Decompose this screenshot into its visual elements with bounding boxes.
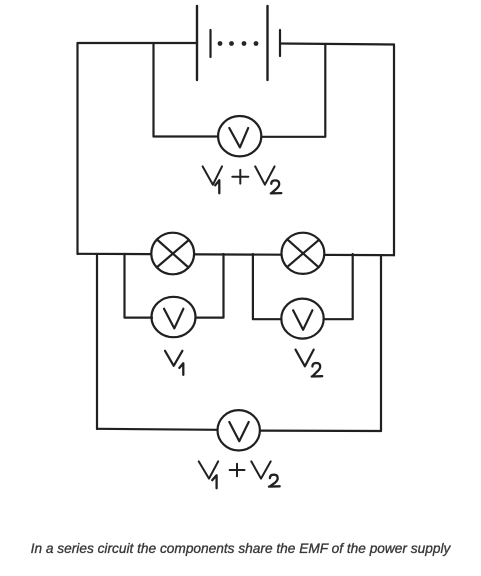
wire voltmeter U3 branch right — [324, 254, 353, 319]
voltmeter U1 V symbol — [229, 128, 248, 147]
wire bottom loop right vertical — [380, 255, 382, 431]
battery B1 short plate left — [209, 30, 211, 57]
wire voltmeter U3 branch left — [253, 254, 282, 319]
wire voltmeter U2 branch right — [196, 254, 224, 318]
label V2 (right meter) — [296, 350, 314, 367]
label V1 + V2 (top) — [203, 166, 275, 184]
voltmeter U3 V symbol — [293, 310, 312, 330]
battery B1 long plate left — [196, 6, 198, 80]
caption — [0, 541, 481, 557]
lamp L1 cross — [157, 240, 189, 268]
voltmeter U2 V symbol — [164, 309, 183, 329]
wire voltmeter U1 branch left — [154, 43, 219, 137]
lamp L2 circle — [282, 233, 325, 274]
label subscript 1 (bottom) — [212, 475, 216, 488]
label subscript 1 (left meter) — [179, 363, 183, 375]
label subscript 2 (top) — [271, 180, 282, 193]
wire voltmeter U2 branch left — [125, 254, 153, 318]
battery B1 short plate right — [279, 30, 281, 56]
wire lamp row horizontal — [78, 254, 395, 255]
wire right outer vertical — [393, 45, 395, 256]
wire left outer vertical — [76, 43, 78, 254]
label subscript 2 (bottom) — [269, 475, 280, 487]
wire voltmeter U1 branch right — [262, 44, 326, 137]
wire bottom horizontal left — [97, 429, 218, 430]
lamp L1 circle — [151, 233, 194, 275]
battery B1 long plate right — [266, 6, 268, 80]
voltmeter U4 V symbol — [229, 422, 248, 441]
wire bottom loop left vertical — [96, 254, 98, 429]
lamp L2 cross — [287, 239, 319, 267]
label subscript 1 (top) — [215, 180, 219, 193]
voltmeter U4 circle — [218, 410, 260, 450]
label V1 (left meter) — [165, 351, 182, 366]
wire top-right horizontal — [280, 44, 394, 45]
voltmeter U3 circle — [281, 299, 323, 339]
voltmeter U2 circle — [152, 297, 196, 337]
voltmeter U1 circle — [218, 116, 261, 156]
wire bottom horizontal right — [261, 430, 382, 433]
battery dots (more cells) — [218, 41, 259, 46]
label V1 + V2 (bottom) — [199, 461, 271, 478]
label subscript 2 (right meter) — [312, 363, 323, 377]
wire top-left horizontal — [78, 42, 197, 44]
